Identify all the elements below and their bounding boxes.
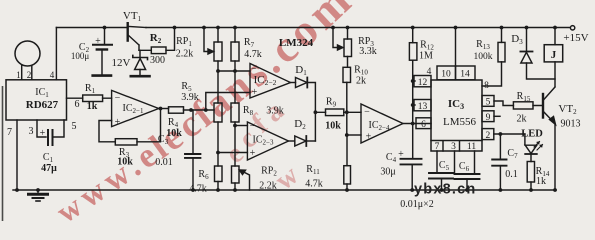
svg-text:−: − (251, 64, 257, 75)
svg-text:1k: 1k (87, 101, 98, 112)
svg-text:+: + (250, 148, 256, 159)
svg-text:300: 300 (150, 55, 165, 66)
svg-text:1: 1 (16, 70, 21, 80)
svg-text:−: − (115, 93, 121, 104)
svg-text:4: 4 (50, 70, 55, 80)
svg-text:2k: 2k (356, 76, 366, 87)
svg-text:3: 3 (29, 126, 34, 137)
svg-text:+: + (95, 36, 101, 47)
svg-text:+: + (115, 117, 121, 128)
svg-text:9: 9 (486, 113, 491, 123)
svg-text:10k: 10k (166, 128, 182, 139)
svg-text:+: + (40, 128, 46, 139)
svg-text:5: 5 (72, 121, 77, 132)
svg-text:9013: 9013 (561, 119, 581, 130)
svg-text:−: − (364, 107, 370, 118)
svg-text:100μ: 100μ (71, 51, 90, 61)
svg-text:2: 2 (27, 70, 32, 80)
svg-text:RD627: RD627 (26, 99, 59, 111)
svg-text:47μ: 47μ (41, 163, 57, 174)
svg-text:+: + (398, 149, 404, 160)
svg-text:ybx8.cn: ybx8.cn (414, 182, 476, 198)
svg-text:2.2k: 2.2k (176, 49, 194, 60)
svg-text:10k: 10k (117, 157, 133, 168)
svg-text:12: 12 (418, 78, 428, 88)
svg-text:14: 14 (460, 70, 470, 80)
svg-text:4.7k: 4.7k (305, 179, 323, 190)
svg-text:100k: 100k (474, 52, 493, 62)
svg-text:4.7k: 4.7k (244, 49, 262, 60)
svg-text:3.9k: 3.9k (181, 92, 199, 103)
svg-text:10k: 10k (325, 121, 341, 132)
svg-text:J: J (551, 49, 557, 61)
svg-text:0.01μ×2: 0.01μ×2 (400, 199, 434, 210)
svg-text:6: 6 (421, 120, 426, 130)
svg-text:3.3k: 3.3k (359, 46, 377, 57)
svg-text:3: 3 (451, 142, 456, 152)
svg-text:1k: 1k (536, 176, 546, 187)
svg-text:8: 8 (484, 81, 489, 91)
svg-text:−: − (250, 121, 256, 132)
svg-text:LM556: LM556 (443, 116, 477, 128)
svg-text:LM324: LM324 (279, 37, 314, 49)
svg-text:7: 7 (7, 127, 12, 138)
svg-text:LED: LED (521, 129, 543, 140)
svg-text:+: + (366, 132, 372, 143)
svg-text:10: 10 (441, 70, 451, 80)
svg-text:12V: 12V (112, 57, 131, 69)
svg-text:4.7k: 4.7k (189, 184, 207, 195)
svg-text:1M: 1M (419, 51, 433, 62)
svg-text:2.2k: 2.2k (259, 181, 277, 192)
svg-text:2: 2 (486, 131, 491, 141)
svg-text:+: + (252, 87, 258, 98)
svg-text:2k: 2k (517, 114, 527, 125)
svg-text:0.1: 0.1 (505, 169, 518, 180)
svg-text:4: 4 (427, 67, 432, 77)
svg-text:6: 6 (75, 99, 80, 110)
svg-text:0.01: 0.01 (155, 157, 173, 168)
svg-text:11: 11 (467, 142, 476, 152)
svg-text:7: 7 (435, 142, 440, 152)
svg-text:+15V: +15V (563, 32, 588, 44)
svg-text:30μ: 30μ (380, 167, 395, 178)
svg-text:5: 5 (486, 98, 491, 108)
svg-text:3.9k: 3.9k (266, 106, 284, 117)
svg-text:13: 13 (418, 102, 428, 112)
